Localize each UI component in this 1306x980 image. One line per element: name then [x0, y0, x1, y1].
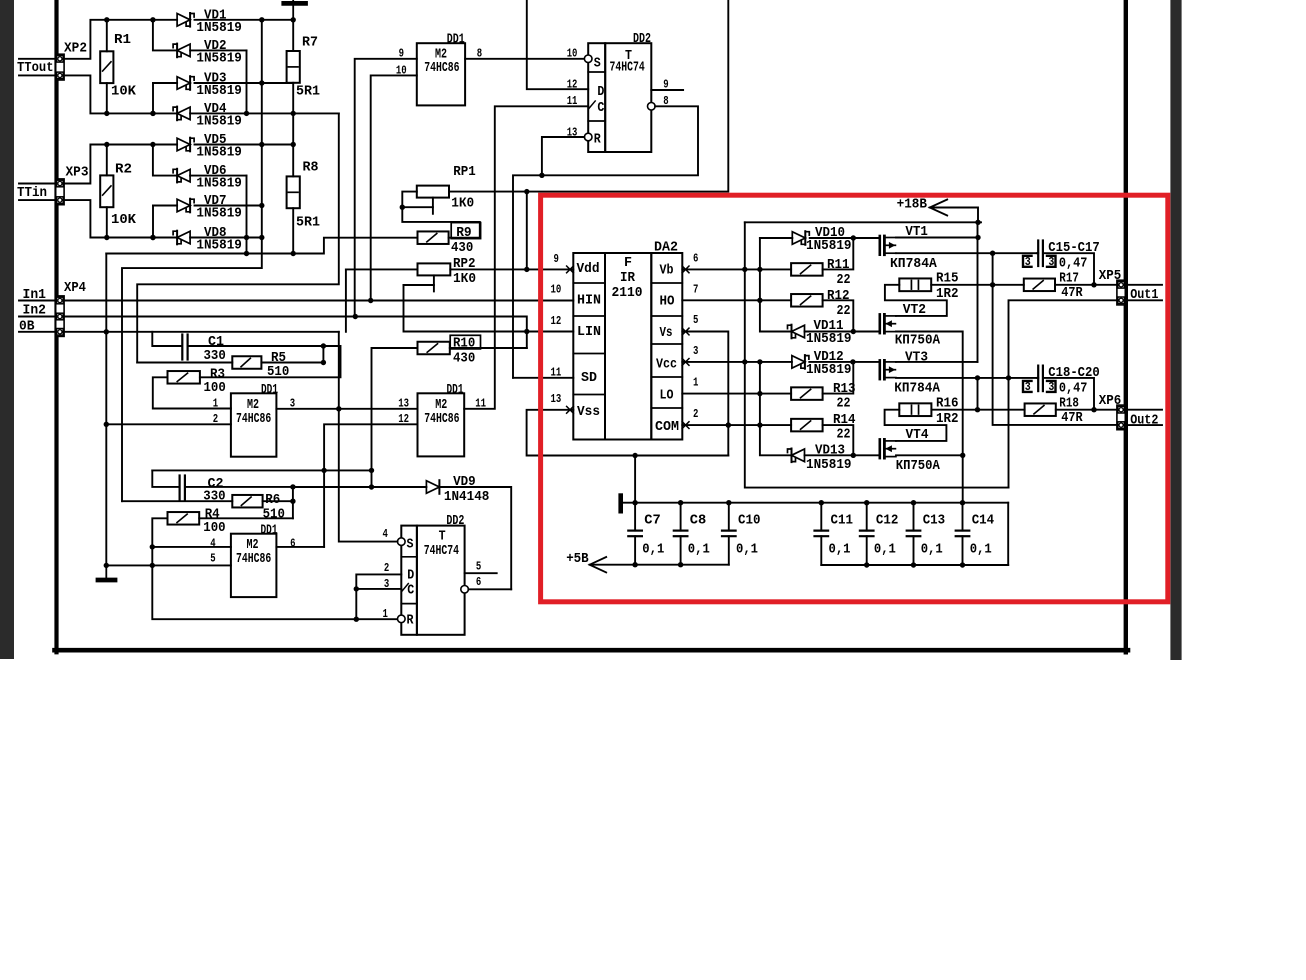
connector XP2 — [56, 54, 64, 80]
svg-text:0,1: 0,1 — [921, 541, 943, 557]
transistor VT1 — [878, 236, 881, 255]
svg-text:1К0: 1К0 — [453, 271, 476, 287]
wire Q8 to SD route — [513, 106, 698, 378]
svg-text:1N5819: 1N5819 — [806, 362, 852, 378]
wire R10 right — [450, 347, 527, 349]
wire VD4 row down to row284 — [137, 113, 339, 362]
wire VT3 source — [896, 377, 1037, 379]
svg-text:LIN: LIN — [577, 324, 601, 340]
ground bottom — [105, 565, 107, 577]
svg-text:74HC86: 74HC86 — [424, 411, 459, 427]
wire VD1 row to R7 — [262, 19, 293, 21]
svg-text:5R1: 5R1 — [296, 215, 320, 231]
wire Out2 pin1 ext — [1124, 409, 1162, 411]
wire Out2 pin2 ext — [1124, 424, 1162, 426]
svg-text:100: 100 — [203, 520, 225, 536]
svg-text:R: R — [594, 132, 601, 148]
ground top — [292, 0, 294, 20]
wire R3 left to pin1 — [153, 377, 231, 408]
svg-text:C7: C7 — [644, 512, 661, 528]
resistor R10 — [418, 342, 450, 355]
svg-text:C: C — [407, 583, 414, 599]
left dark margin bar — [0, 0, 14, 659]
wire +5V rail — [590, 564, 729, 566]
wire R10 left to VD9 node — [372, 348, 418, 487]
wire source col seg2 — [977, 378, 979, 410]
wire pin2 row — [106, 423, 231, 425]
svg-text:2: 2 — [384, 561, 389, 575]
svg-text:1: 1 — [693, 376, 698, 390]
svg-text:DD2: DD2 — [633, 31, 651, 47]
wire phase col x992 — [993, 253, 1118, 425]
svg-text:КП784А: КП784А — [894, 381, 940, 397]
svg-text:F: F — [624, 255, 632, 271]
svg-text:12: 12 — [551, 314, 562, 328]
wire R1 bottom — [106, 83, 108, 113]
wire C input — [356, 588, 401, 590]
diode VD3 — [153, 82, 177, 84]
node VD1-R7-gnd column — [291, 17, 296, 22]
svg-text:DD2: DD2 — [446, 513, 464, 529]
svg-text:КП750А: КП750А — [895, 332, 941, 348]
capacitor C8 — [680, 503, 682, 531]
svg-text:R2: R2 — [115, 162, 132, 178]
wire R7 top — [292, 20, 294, 51]
resistor R17 — [1024, 279, 1055, 292]
svg-text:100: 100 — [204, 380, 226, 396]
resistor R11 — [791, 263, 823, 276]
wire In1 stub — [19, 300, 56, 302]
diode VD11 — [792, 325, 805, 338]
svg-text:0,1: 0,1 — [688, 541, 710, 557]
svg-text:5: 5 — [476, 559, 481, 573]
connector XP6 — [1117, 405, 1125, 430]
svg-text:C: C — [597, 100, 604, 116]
svg-text:510: 510 — [267, 364, 289, 380]
capacitor C7 — [634, 503, 636, 531]
wire +18 col to VT3 — [977, 222, 979, 362]
svg-text:R8: R8 — [303, 160, 319, 176]
transistor VT4 — [878, 439, 881, 458]
svg-text:C14: C14 — [972, 512, 995, 528]
wire Vs row — [682, 332, 728, 456]
pin mark Vss — [567, 406, 574, 413]
svg-text:5R1: 5R1 — [296, 84, 320, 100]
svg-text:22: 22 — [837, 272, 851, 288]
resistor R5 — [232, 356, 261, 369]
capacitor group C15-C17 — [1037, 241, 1039, 267]
bracket 3 right2 — [1047, 381, 1056, 392]
bracket 3 right — [1047, 256, 1056, 267]
svg-text:9: 9 — [554, 252, 559, 266]
pin mark Vs — [682, 328, 689, 335]
wire RP2 left row — [346, 268, 418, 270]
resistor R4 — [168, 512, 200, 525]
wire C1 to R3 corner — [200, 346, 341, 377]
svg-text:DD1: DD1 — [447, 32, 465, 48]
wire R12 right down — [823, 300, 854, 331]
svg-text:XP3: XP3 — [66, 165, 89, 181]
wire 0V stub — [19, 331, 56, 333]
wire VD6 to col c — [246, 176, 248, 254]
svg-text:C15-C17: C15-C17 — [1048, 240, 1099, 256]
wire R5 left — [137, 362, 232, 364]
capacitor C1 — [152, 332, 181, 346]
trimmer RP2 — [418, 263, 451, 275]
svg-text:1N5819: 1N5819 — [196, 20, 242, 36]
svg-text:XP4: XP4 — [64, 280, 86, 296]
svg-text:C13: C13 — [923, 512, 946, 528]
wire R2 top — [106, 145, 108, 176]
wire R13 right up — [823, 362, 854, 394]
diode VD2 — [153, 20, 177, 51]
svg-text:1N4148: 1N4148 — [444, 489, 490, 505]
resistor R9 — [418, 231, 449, 244]
wire RP2 tap to LIN — [404, 284, 434, 286]
wire R11 right up — [823, 238, 854, 269]
resistor R3 — [168, 371, 200, 384]
svg-text:10: 10 — [567, 47, 578, 61]
IC DD2 flip-flop top — [588, 43, 605, 152]
wire Vss row — [527, 410, 729, 456]
svg-text:1R2: 1R2 — [936, 411, 959, 427]
wire VD11 node to VT2 gate — [853, 331, 880, 333]
svg-text:5: 5 — [210, 552, 215, 566]
wire SD row — [513, 377, 573, 379]
wire VD10 node to VT1 gate — [853, 237, 880, 239]
svg-text:S: S — [407, 536, 414, 552]
wire VT1 drain — [896, 237, 978, 239]
wire cap top rail — [621, 502, 1009, 504]
IC DD1 gate pins13-11 — [418, 393, 465, 456]
wire VT2 source loop R15 — [885, 285, 947, 316]
connector XP3 — [56, 179, 64, 205]
resistor R6 — [232, 495, 262, 508]
wire RP1 left loop to R9 — [402, 192, 480, 238]
svg-text:C12: C12 — [876, 512, 899, 528]
svg-text:XP5: XP5 — [1099, 268, 1122, 284]
wire Q6 row — [468, 588, 511, 590]
svg-text:4: 4 — [383, 527, 389, 541]
svg-text:КП750А: КП750А — [896, 458, 941, 474]
svg-text:0,1: 0,1 — [829, 541, 851, 557]
svg-text:VT3: VT3 — [905, 349, 928, 365]
wire R row route — [152, 547, 397, 619]
capacitor C14 — [962, 503, 964, 531]
resistor R18 — [1025, 403, 1056, 416]
wire Vss drop to cap rail — [634, 456, 636, 503]
wire RP1 tap — [402, 206, 433, 208]
resistor R15 — [899, 278, 931, 291]
diode VD4 — [107, 112, 177, 114]
wire R18 right to XP6 — [1056, 409, 1118, 411]
wire Out1 pin2 — [1009, 300, 1118, 487]
wire Out1 pin2 ext — [1124, 299, 1162, 301]
diode VD7 — [153, 205, 177, 207]
svg-text:0,1: 0,1 — [736, 541, 758, 557]
wire R15 right — [931, 284, 992, 286]
capacitor group C18-C20 — [1037, 366, 1039, 392]
capacitor C12 — [866, 503, 868, 531]
resistor R8 — [287, 176, 300, 208]
svg-text:Vcc: Vcc — [656, 356, 677, 372]
svg-text:R12: R12 — [827, 288, 850, 304]
wire pin5 row — [106, 564, 231, 566]
wire pin6 up to row470 — [276, 546, 324, 548]
inversion bubble Q6b — [461, 586, 469, 594]
wire row 470 — [152, 469, 371, 471]
wire cap rail wrap — [963, 503, 1009, 565]
svg-text:D: D — [597, 84, 604, 100]
svg-text:1: 1 — [383, 607, 388, 621]
inversion bubble R2 — [398, 615, 406, 623]
capacitor C10 — [728, 503, 730, 531]
wire R6 left — [122, 500, 232, 502]
svg-text:6: 6 — [290, 537, 295, 551]
wire VD9 cathode to Q6 — [440, 487, 511, 589]
wire S input from gate out — [339, 409, 398, 542]
svg-text:6: 6 — [693, 252, 698, 266]
diode VD8 — [107, 237, 177, 239]
svg-text:10: 10 — [551, 283, 562, 297]
svg-text:0,1: 0,1 — [970, 541, 992, 557]
inversion bubble R — [584, 133, 592, 141]
svg-text:10K: 10K — [111, 83, 137, 99]
svg-text:1К0: 1К0 — [451, 196, 474, 212]
resistor R14 — [791, 419, 823, 432]
svg-text:R7: R7 — [302, 35, 318, 51]
wire R2 bottom — [106, 207, 108, 237]
svg-text:1N5819: 1N5819 — [806, 457, 852, 473]
IC DD2 flip-flop bottom — [401, 526, 417, 635]
schematic frame right border — [1124, 0, 1128, 652]
svg-text:КП784А: КП784А — [890, 256, 937, 272]
wire HO row — [682, 299, 791, 301]
IC DA2 IR2110 — [573, 253, 605, 440]
wire Vcc row — [682, 361, 792, 363]
svg-text:R11: R11 — [827, 257, 850, 273]
svg-text:3: 3 — [1048, 380, 1054, 394]
resistor R12 — [791, 294, 823, 307]
svg-text:74HC86: 74HC86 — [424, 60, 459, 76]
schematic frame left border — [54, 0, 58, 652]
right dark margin bar — [1170, 0, 1181, 660]
wire XP3 pin1 to VD5 row — [63, 145, 107, 184]
wire VT4 source loop R16 — [885, 410, 947, 441]
svg-text:47R: 47R — [1061, 285, 1083, 301]
wire In1 row to HIN — [63, 300, 573, 302]
svg-text:22: 22 — [837, 396, 851, 412]
wire pin11 to DD2 C input — [464, 106, 588, 409]
svg-text:R1: R1 — [114, 32, 131, 48]
diode VD12 — [792, 356, 805, 369]
connector XP4 — [56, 296, 64, 337]
wire gate col lower — [760, 362, 792, 455]
wire D input — [356, 574, 401, 619]
inversion bubble S2 — [398, 538, 406, 546]
svg-text:XP2: XP2 — [64, 41, 87, 57]
wire RP2 right row to Vdd — [450, 268, 573, 270]
wire VT3 drain — [896, 361, 978, 363]
diode VD5 — [107, 144, 177, 146]
svg-text:22: 22 — [837, 427, 851, 443]
svg-text:3: 3 — [1048, 255, 1054, 269]
svg-text:D: D — [407, 568, 414, 584]
wire R input route — [542, 137, 584, 175]
svg-text:DA2: DA2 — [654, 240, 678, 256]
svg-text:R: R — [407, 613, 414, 629]
resistor R1 — [100, 51, 113, 83]
wire TTin pin1 — [19, 183, 56, 185]
svg-text:Vb: Vb — [660, 263, 674, 279]
wire R14 right down — [823, 425, 854, 455]
wire 0V bottom rail — [821, 564, 1008, 566]
resistor R2 — [100, 175, 113, 207]
wire R4 left to pin4 — [152, 518, 231, 547]
svg-text:HO: HO — [660, 294, 675, 310]
wire pin12 row — [324, 424, 417, 547]
svg-text:3: 3 — [1025, 380, 1031, 394]
wire Vdd column — [526, 191, 528, 270]
svg-text:TTout: TTout — [17, 60, 54, 76]
svg-text:330: 330 — [204, 348, 226, 364]
red highlight rectangle — [541, 195, 1168, 602]
wire VD13 node to VT4 gate — [853, 454, 880, 456]
wire pin10 from In1 — [371, 75, 417, 300]
svg-text:1R2: 1R2 — [936, 286, 959, 302]
svg-text:1: 1 — [213, 397, 218, 411]
svg-text:TTin: TTin — [17, 185, 47, 201]
svg-text:74HC86: 74HC86 — [236, 411, 271, 427]
wire +18V rail — [745, 221, 981, 223]
svg-text:0,47: 0,47 — [1059, 256, 1088, 272]
svg-text:Vs: Vs — [660, 325, 673, 341]
svg-text:1N5819: 1N5819 — [196, 206, 242, 222]
svg-text:5: 5 — [693, 313, 698, 327]
svg-text:C8: C8 — [690, 512, 707, 528]
svg-text:9: 9 — [663, 77, 668, 91]
svg-text:R9: R9 — [456, 225, 472, 241]
svg-text:13: 13 — [551, 392, 562, 406]
svg-text:1N5819: 1N5819 — [196, 50, 242, 66]
bracket 3 left2 — [1023, 381, 1032, 392]
svg-text:430: 430 — [451, 240, 473, 256]
diode VD13 — [792, 449, 805, 462]
wire VT4 drain — [896, 454, 963, 456]
wire gate col upper — [760, 238, 792, 332]
svg-text:C11: C11 — [831, 512, 854, 528]
resistor R7 — [287, 51, 300, 83]
svg-text:3: 3 — [1025, 255, 1031, 269]
svg-text:47R: 47R — [1061, 410, 1083, 426]
svg-text:2110: 2110 — [612, 285, 643, 301]
svg-text:0,1: 0,1 — [642, 541, 664, 557]
wire In2 row — [63, 317, 527, 349]
capacitor C2 — [152, 470, 178, 487]
wire 0V row — [63, 331, 339, 333]
svg-text:1N5819: 1N5819 — [196, 83, 242, 99]
svg-text:C10: C10 — [738, 512, 761, 528]
wire R4 right — [199, 517, 293, 519]
wire 0V vertical to gate row — [338, 332, 340, 409]
trimmer RP1 — [417, 186, 449, 198]
wire R6 right — [263, 500, 293, 502]
svg-text:430: 430 — [453, 351, 475, 367]
svg-text:74HC86: 74HC86 — [236, 551, 271, 567]
svg-text:+18В: +18В — [897, 196, 928, 212]
wire In2 stub — [19, 316, 56, 318]
transistor VT2 — [878, 314, 881, 333]
svg-text:6: 6 — [476, 575, 481, 589]
svg-text:0,47: 0,47 — [1059, 381, 1088, 397]
svg-text:DD1: DD1 — [261, 382, 278, 398]
wire C2 row to VD9 — [293, 486, 427, 488]
svg-text:VD13: VD13 — [815, 442, 845, 458]
svg-text:R10: R10 — [453, 336, 475, 352]
svg-text:11: 11 — [567, 94, 578, 108]
resistor R16 — [899, 403, 931, 416]
IC DD1 gate pins4-6 — [231, 534, 277, 597]
svg-text:SD: SD — [581, 370, 597, 386]
wire Out1 pin1 ext — [1124, 284, 1162, 286]
wire R17 right to XP5 — [1055, 284, 1118, 286]
svg-text:4: 4 — [210, 537, 216, 551]
wire D input route — [527, 0, 588, 89]
wire LO row — [682, 393, 791, 395]
wire pin9 from In2 — [355, 59, 417, 317]
pin mark Vb — [682, 266, 689, 273]
svg-text:Vdd: Vdd — [577, 261, 600, 277]
wire +18 column x744 — [745, 222, 1009, 487]
wire VD12 node to VT3 gate — [853, 361, 880, 363]
wire Vb row — [682, 268, 791, 270]
wire left vertical x106 to ground — [105, 254, 107, 566]
svg-text:13: 13 — [398, 397, 409, 411]
wire pin8 to DD2 S — [465, 58, 584, 60]
wire VT2 drain — [896, 332, 963, 503]
wire pin3 to pin13 row — [276, 408, 417, 410]
inversion bubble S — [584, 55, 592, 63]
svg-text:1N5819: 1N5819 — [196, 113, 242, 129]
pin mark Vdd — [567, 266, 574, 273]
svg-text:1N5819: 1N5819 — [196, 238, 242, 254]
wire XP3 pin2 to VD8 row — [63, 200, 107, 237]
svg-text:1N5819: 1N5819 — [806, 331, 852, 347]
bracket 3 left — [1023, 256, 1032, 267]
wire XP2 pin2 to VD4 row — [63, 75, 107, 113]
capacitor C13 — [913, 503, 915, 531]
svg-text:COM: COM — [655, 419, 679, 435]
svg-text:C18-C20: C18-C20 — [1048, 365, 1099, 381]
diode VD6 — [153, 145, 177, 176]
svg-text:DD1: DD1 — [261, 523, 278, 539]
diode VD9 — [426, 481, 439, 494]
wire Q output 9 stub — [651, 89, 683, 91]
pin mark Vcc — [682, 359, 689, 366]
svg-text:LO: LO — [660, 387, 674, 403]
svg-text:HIN: HIN — [577, 293, 601, 309]
wire RP1 right row — [449, 0, 728, 192]
svg-text:Vss: Vss — [577, 404, 600, 420]
wire Q output 5 stub — [465, 572, 497, 574]
svg-text:S: S — [594, 55, 601, 71]
svg-text:IR: IR — [620, 270, 636, 286]
wire TTin pin2 — [19, 199, 56, 201]
wire COM row — [682, 424, 791, 426]
resistor R13 — [791, 387, 823, 400]
IC DD1 gate pins1-3 — [231, 393, 277, 456]
inversion bubble Q8 — [648, 103, 656, 111]
